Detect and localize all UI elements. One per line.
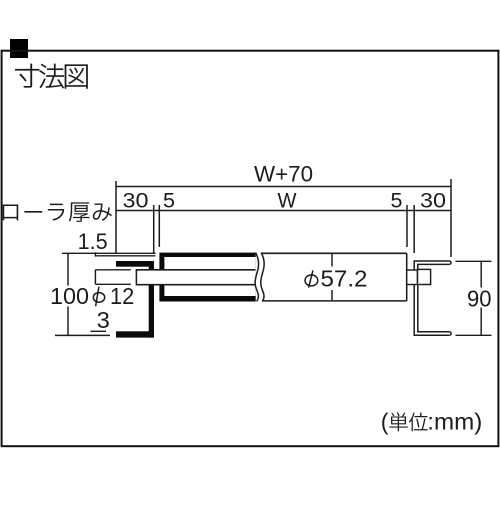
dim line 90 [480, 261, 482, 335]
left frame web (section) [149, 261, 154, 338]
svg-text:W: W [278, 188, 298, 212]
corner index mark [10, 39, 28, 58]
extension line left end [115, 181, 117, 254]
extension line roller left end [158, 205, 160, 247]
extension line frame web right [413, 205, 415, 253]
svg-text:5: 5 [163, 188, 175, 212]
roller tube bore (sectioned part) [164, 257, 255, 296]
left frame bottom flange (section) [116, 331, 154, 337]
tube break gap [255, 252, 264, 302]
svg-text:(: ( [381, 409, 389, 435]
dim line 100 [67, 254, 69, 335]
label ROLLER ATSUMI (roller thickness) [3, 202, 112, 221]
dim tick 3 lower / 100 bottom tick [55, 334, 110, 336]
leader line roller wall 1.5 [95, 255, 155, 257]
tube break line right [261, 253, 264, 302]
leader tick 1.5 [94, 252, 96, 256]
bearing block square [418, 269, 431, 284]
svg-text:12: 12 [110, 283, 134, 309]
dim tick 3 upper [91, 330, 107, 332]
page border frame [2, 51, 499, 447]
right frame top flange end cap [449, 261, 451, 264]
svg-text:30: 30 [123, 188, 149, 212]
svg-text:100: 100 [50, 283, 89, 309]
unit note (TAN-I : mm) [381, 409, 483, 435]
svg-text:30: 30 [420, 188, 446, 212]
tube break line left [255, 253, 258, 302]
dim line 30-5-W-5-30 [116, 210, 451, 212]
extension line roller right end [406, 205, 408, 247]
left frame top flange (section) [116, 261, 154, 267]
title SUNPOU-ZU (dimension diagram) [15, 64, 88, 89]
right frame bottom flange end cap [449, 332, 451, 336]
shaft stub left [95, 270, 130, 285]
dim ticks 90 [456, 261, 492, 335]
svg-text:90: 90 [467, 286, 492, 312]
roller tube wall (sectioned part) [159, 253, 255, 302]
roller tube outline (outside view part) [262, 253, 407, 301]
extension line right end [450, 179, 452, 257]
shaft bar through left frame [136, 270, 255, 285]
leader line roller top / 100 top tick [62, 252, 156, 254]
leader line phi57.2 [331, 253, 333, 301]
phi symbol of phi57.2 [305, 275, 318, 286]
svg-text:1.5: 1.5 [78, 229, 108, 254]
right frame channel inner outline [418, 264, 450, 331]
extension line frame web left [153, 205, 155, 254]
dim line W+70 [116, 186, 451, 188]
svg-text::mm): :mm) [427, 409, 482, 435]
shaft stub right [407, 270, 418, 285]
svg-text:3: 3 [97, 307, 110, 333]
phi symbol of phi12 [93, 293, 104, 303]
right frame channel outer outline [414, 261, 449, 335]
svg-text:5: 5 [391, 188, 403, 212]
svg-text:W+70: W+70 [254, 161, 313, 186]
svg-text:57.2: 57.2 [321, 265, 368, 291]
